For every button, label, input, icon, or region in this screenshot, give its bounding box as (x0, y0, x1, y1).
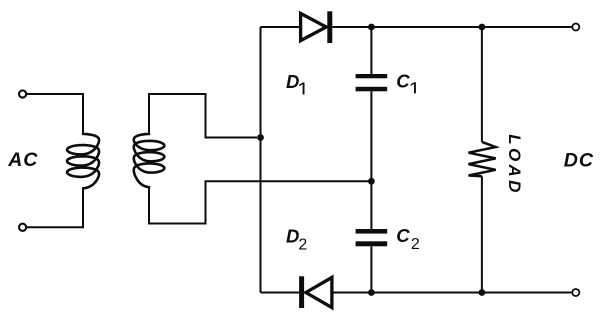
svg-text:2: 2 (298, 237, 307, 254)
svg-text:D: D (286, 71, 300, 92)
svg-text:2: 2 (411, 236, 420, 253)
svg-text:AC: AC (7, 149, 38, 171)
svg-text:LOAD: LOAD (505, 134, 524, 195)
svg-text:C: C (396, 71, 410, 92)
svg-text:DC: DC (564, 149, 594, 171)
svg-text:C: C (396, 225, 410, 246)
